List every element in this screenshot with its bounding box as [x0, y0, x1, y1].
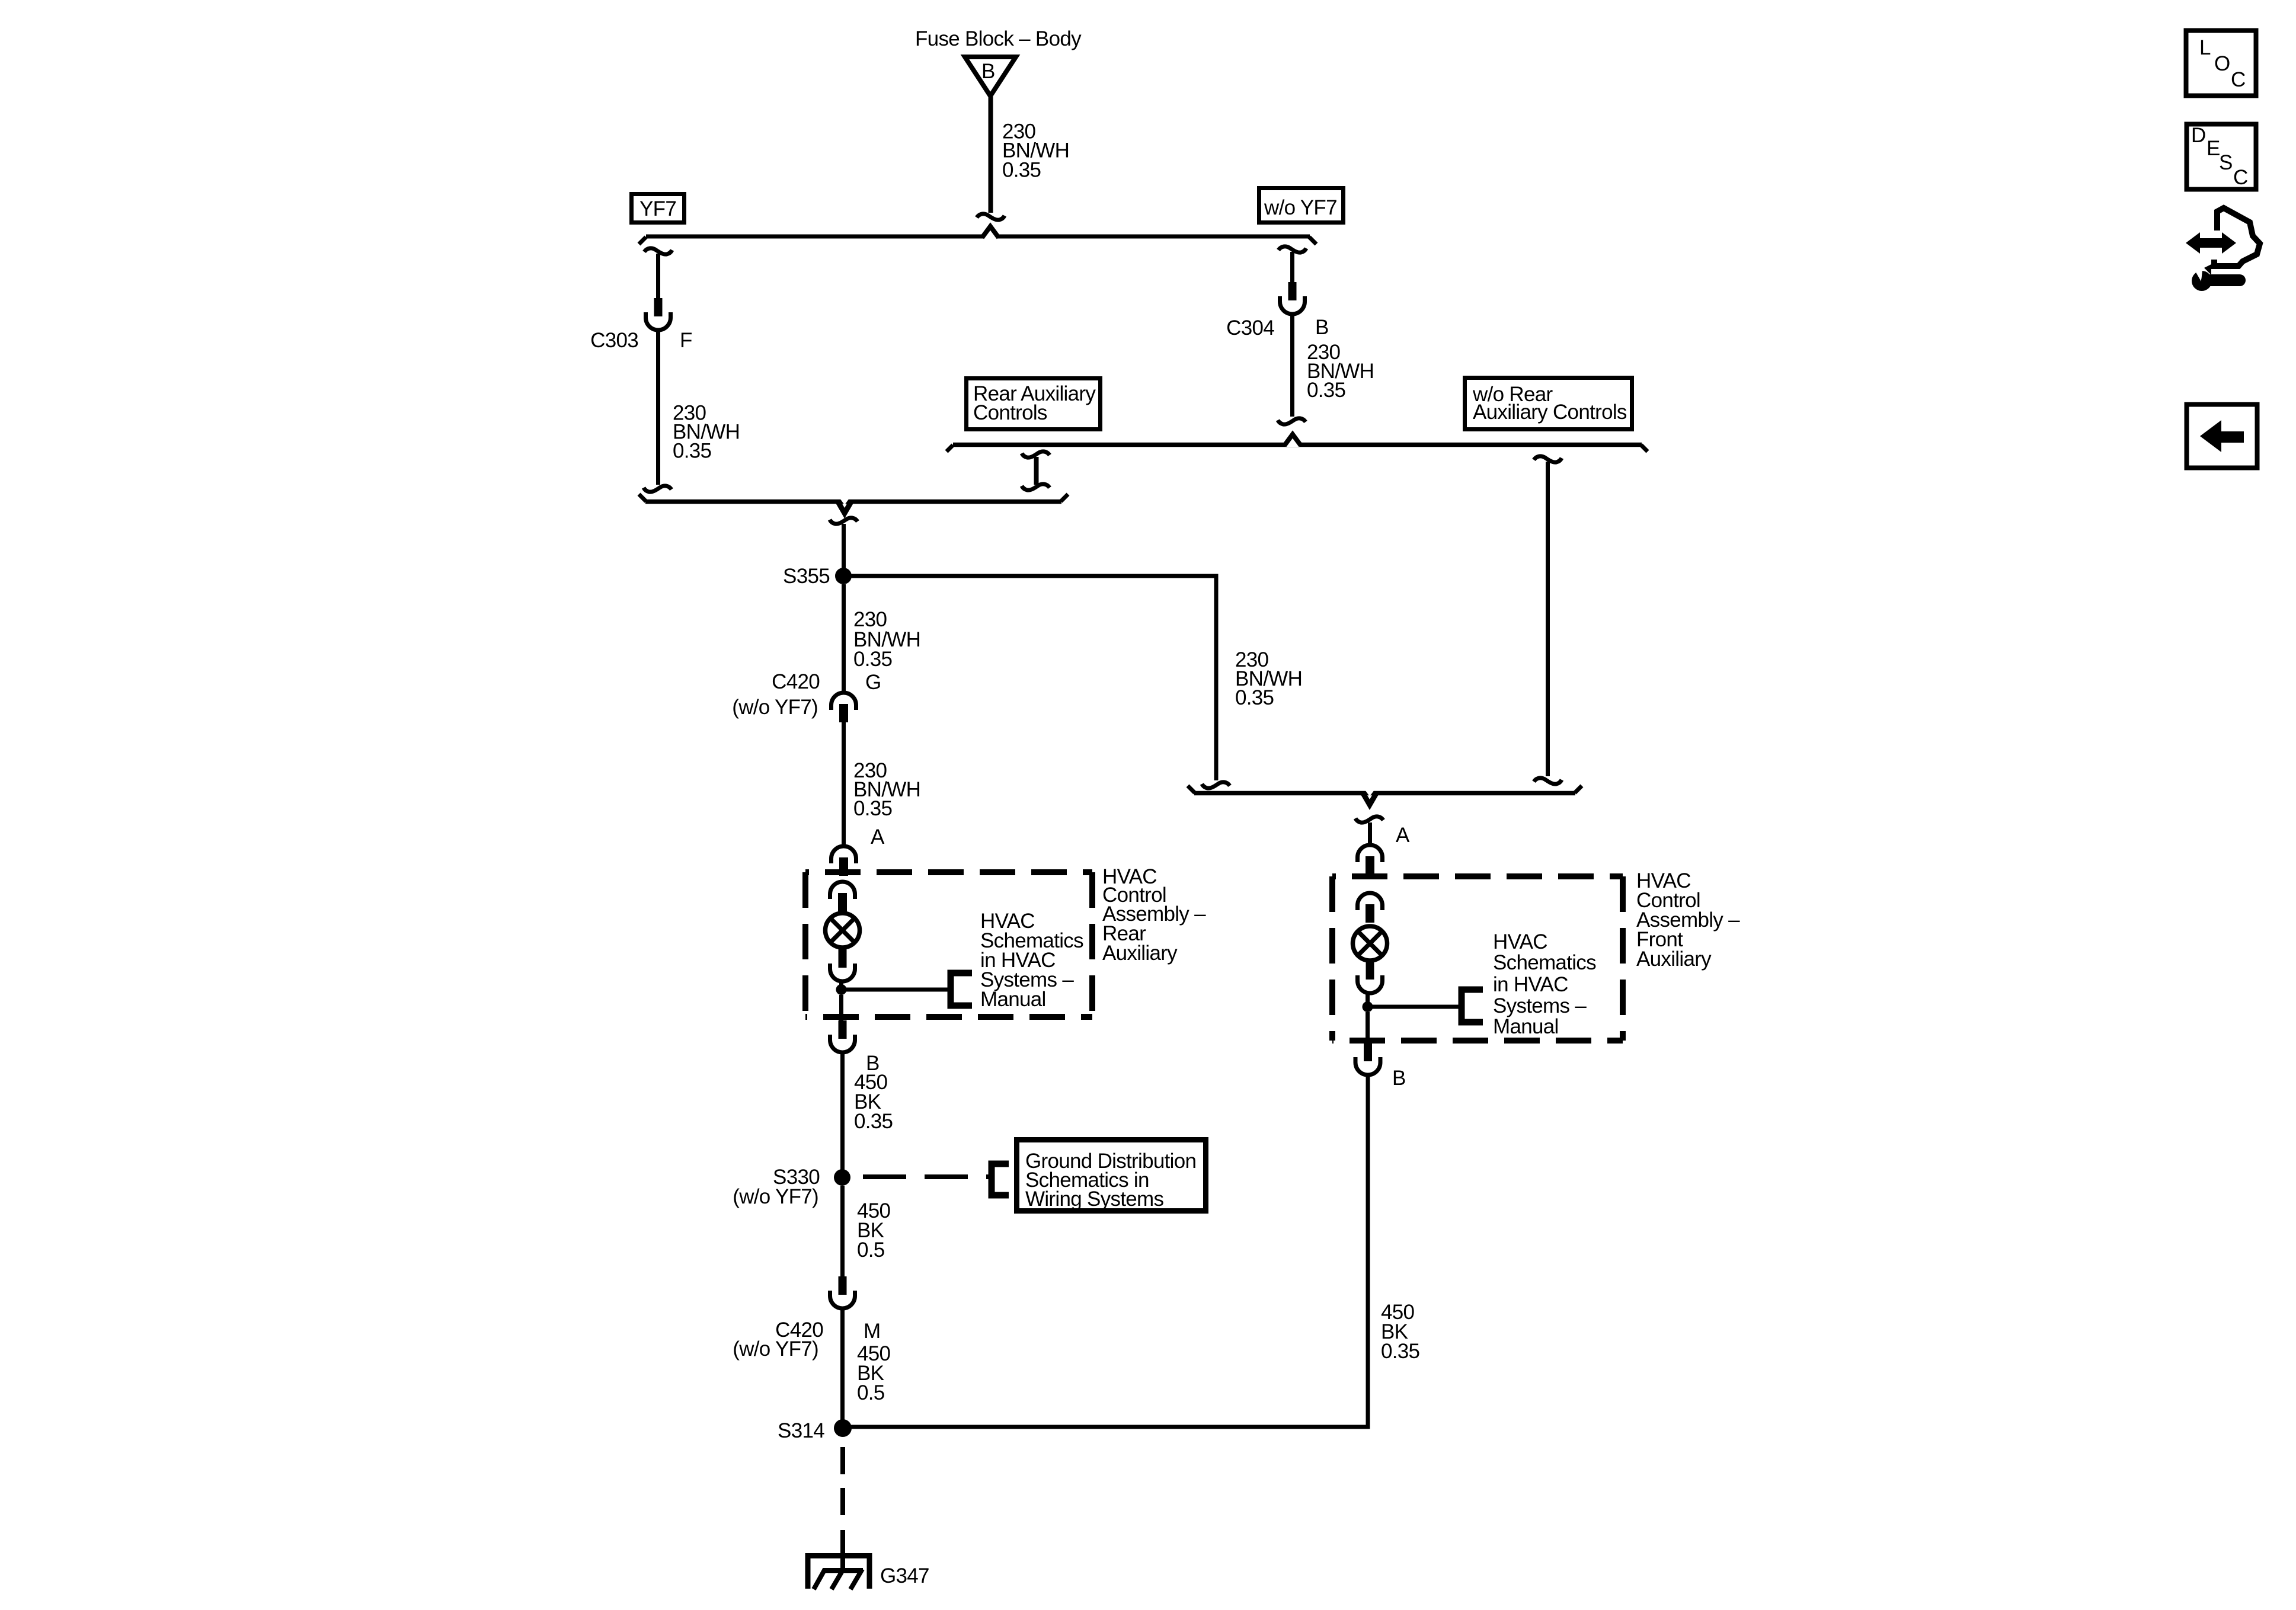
bus wire 4 (front aux rejoin) — [1194, 791, 1575, 796]
bracket to HVAC schematics note (right) — [1462, 990, 1483, 1022]
dashed reference wire from S330 — [863, 1174, 993, 1179]
svg-text:F: F — [680, 329, 692, 352]
wire YF7 branch down from bus1 — [644, 248, 672, 254]
bus4 junction chevron down — [1365, 790, 1374, 796]
reference box Ground Distribution Schematics in Wiring Systems — [1017, 1140, 1206, 1211]
bus2 right end tick — [1061, 494, 1068, 501]
connector C420 G (w/o YF7) — [832, 693, 856, 722]
wire below C304 — [1290, 313, 1294, 417]
wire junction down through right box edge — [1366, 1012, 1370, 1043]
svg-text:0.35: 0.35 — [853, 797, 892, 820]
svg-text:G: G — [865, 671, 881, 694]
svg-text:Systems –: Systems – — [1493, 994, 1587, 1017]
dashed ground wire from S314 — [840, 1447, 845, 1523]
wire C303 branch — [656, 254, 660, 298]
svg-text:(w/o YF7): (w/o YF7) — [733, 1185, 818, 1208]
wire rear-aux branch down — [1546, 462, 1550, 776]
dashed outline HVAC Control Assembly - Front Auxiliary — [1332, 876, 1623, 1041]
connector A (left HVAC assembly) — [832, 846, 856, 876]
pin connector inside right box — [1358, 893, 1383, 923]
bracket to ground distribution note — [992, 1164, 1009, 1195]
svg-text:O: O — [2214, 52, 2230, 75]
svg-text:0.35: 0.35 — [1002, 159, 1041, 182]
wire S355 down — [842, 584, 846, 691]
double break jumper between bus3 and bus2 — [1022, 452, 1050, 457]
svg-text:w/o YF7: w/o YF7 — [1264, 196, 1337, 219]
bus3 right end tick — [1641, 445, 1648, 452]
svg-text:A: A — [871, 825, 885, 849]
icon wiring route (arrows + wrench) — [2186, 208, 2260, 291]
svg-text:A: A — [1396, 824, 1410, 847]
svg-text:C: C — [2231, 68, 2246, 91]
wire junction to bracket — [1367, 1005, 1459, 1009]
splice S355 — [835, 568, 852, 584]
connector C303 F — [646, 298, 671, 330]
bus2 junction chevron down to S355 — [840, 498, 849, 505]
wire break curl below bus2 chevron — [830, 518, 858, 524]
svg-text:Wiring Systems: Wiring Systems — [1025, 1188, 1163, 1211]
wire from S355 to right branch — [843, 576, 1216, 780]
svg-text:Auxiliary: Auxiliary — [1636, 948, 1712, 971]
svg-text:0.35: 0.35 — [1235, 686, 1274, 709]
component box w/o Rear Auxiliary Controls — [1465, 378, 1632, 430]
lamp (front aux illumination) — [1353, 926, 1387, 961]
svg-text:C303: C303 — [590, 329, 638, 352]
wire w/o YF7 branch down from bus1 — [1278, 247, 1306, 252]
node junction dot — [836, 984, 847, 995]
lamp (rear aux illumination) — [826, 913, 860, 948]
bus wire 2 (YF7 rejoin) — [645, 500, 1061, 504]
svg-text:Manual: Manual — [1493, 1015, 1559, 1038]
bus1 left end tick — [639, 237, 646, 244]
icon back arrow box — [2187, 405, 2257, 468]
wire junction down through box edge — [839, 995, 843, 1020]
connector below lamp — [1358, 961, 1383, 993]
svg-text:YF7: YF7 — [639, 197, 676, 220]
wire S330 down — [840, 1186, 845, 1276]
wire below C303 — [656, 329, 660, 485]
wire to junction — [839, 980, 843, 990]
svg-text:0.35: 0.35 — [1307, 379, 1345, 402]
svg-text:(w/o YF7): (w/o YF7) — [732, 696, 818, 719]
option box YF7 — [632, 194, 685, 223]
svg-text:S355: S355 — [783, 565, 830, 588]
svg-text:B: B — [1392, 1067, 1406, 1090]
svg-text:0.35: 0.35 — [854, 1110, 893, 1133]
bus1 junction chevron at fuse wire — [983, 228, 997, 239]
wire to junction — [1366, 992, 1370, 1007]
wire junction to bracket — [841, 988, 948, 992]
bus4 left end tick — [1188, 786, 1195, 793]
connector below lamp — [830, 949, 855, 981]
svg-text:B: B — [1315, 316, 1329, 339]
svg-text:D: D — [2191, 124, 2206, 147]
wire break curl below fuse wire — [977, 214, 1005, 220]
svg-text:Manual: Manual — [980, 988, 1046, 1011]
splice S330 (w/o YF7) — [834, 1169, 850, 1186]
wire below C420 G — [842, 722, 846, 844]
connector A (right HVAC assembly) — [1358, 845, 1383, 875]
svg-text:0.5: 0.5 — [857, 1238, 885, 1262]
splice S314 — [834, 1419, 852, 1437]
fuse block triangle B — [965, 57, 1016, 96]
bus2 left end tick — [639, 494, 646, 501]
wire S314 to right branch — [843, 1076, 1368, 1427]
bus4 right end tick — [1575, 786, 1582, 793]
svg-text:E: E — [2207, 137, 2220, 160]
svg-text:C420: C420 — [772, 670, 820, 693]
connector B below left box — [830, 1020, 855, 1052]
svg-text:Fuse Block – Body: Fuse Block – Body — [915, 27, 1082, 50]
svg-text:S314: S314 — [778, 1419, 824, 1442]
pin connector inside left box — [830, 882, 855, 911]
wire down to connector A (right) — [1368, 822, 1372, 843]
svg-text:B: B — [981, 60, 995, 83]
wire break curl above bus2 left — [644, 486, 671, 492]
svg-text:Auxiliary: Auxiliary — [1102, 942, 1178, 965]
svg-text:L: L — [2199, 36, 2211, 59]
icon LOC box — [2186, 31, 2256, 96]
connector C420 M (w/o YF7) — [830, 1276, 855, 1308]
svg-text:Controls: Controls — [973, 401, 1047, 424]
svg-text:(w/o YF7): (w/o YF7) — [733, 1337, 818, 1361]
svg-text:C: C — [2233, 166, 2248, 189]
component box Rear Auxiliary Controls — [967, 379, 1101, 430]
svg-text:in HVAC: in HVAC — [1493, 973, 1568, 996]
svg-text:0.35: 0.35 — [1381, 1340, 1419, 1363]
wire down from bus3 to right HVAC assembly — [1534, 456, 1562, 462]
svg-text:HVAC: HVAC — [1493, 930, 1547, 953]
bus3 junction chevron from C304 wire — [1285, 436, 1300, 447]
node junction dot — [1363, 1001, 1373, 1012]
wire break curl below bus4 chevron — [1355, 817, 1383, 822]
svg-text:C304: C304 — [1226, 316, 1274, 340]
wire break curl above bus3 chevron — [1278, 418, 1306, 424]
wire down to S355 — [842, 524, 846, 576]
wire C304 branch — [1290, 252, 1294, 282]
bus1 right end tick — [1309, 237, 1316, 244]
connector C304 B — [1280, 282, 1305, 314]
svg-text:Auxiliary Controls: Auxiliary Controls — [1473, 401, 1627, 424]
svg-text:M: M — [864, 1320, 880, 1343]
svg-text:S: S — [2219, 151, 2233, 174]
option box w/o YF7 — [1259, 188, 1344, 223]
bus wire 1 (YF7 / w/o YF7 split) — [646, 235, 1310, 239]
wire below C420 M — [840, 1308, 845, 1420]
bracket to HVAC schematics note — [951, 973, 972, 1006]
svg-text:G347: G347 — [880, 1564, 929, 1587]
bus wire 3 (rear aux split) — [953, 443, 1642, 447]
svg-text:0.35: 0.35 — [673, 440, 711, 463]
wire break curl above bus4 left — [1202, 782, 1230, 788]
bus3 left end tick — [946, 445, 953, 452]
svg-text:Schematics: Schematics — [1493, 951, 1596, 974]
wire down to S330 — [840, 1052, 845, 1170]
svg-text:0.35: 0.35 — [853, 648, 892, 671]
wire break curl above bus4 right — [1534, 778, 1562, 784]
ground G347 — [805, 1553, 872, 1589]
svg-text:0.5: 0.5 — [857, 1381, 885, 1404]
icon DESC box — [2187, 124, 2256, 190]
wire from fuse block down — [989, 96, 993, 213]
dashed outline HVAC Control Assembly - Rear Auxiliary — [805, 872, 1092, 1017]
connector B below right box — [1355, 1043, 1380, 1075]
